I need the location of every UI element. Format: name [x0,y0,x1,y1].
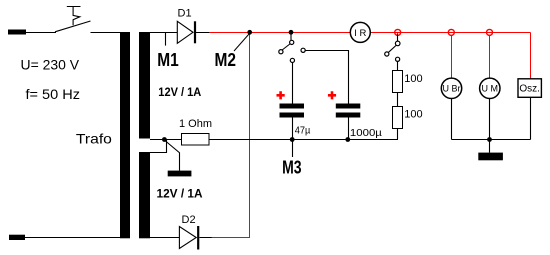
wire to C1 47µ [292,60,294,103]
node M1 tick [165,33,167,46]
junction C1 node [290,137,295,142]
transformer secondary lower winding bar [139,152,150,238]
svg-text:D2: D2 [182,214,196,226]
wire [530,97,532,139]
resistor R1 100 [393,71,403,93]
junction C2 node [345,137,350,142]
wire [26,32,56,34]
terminal bottom-left [9,235,25,240]
wire [397,129,399,140]
svg-text:M2: M2 [215,50,237,70]
node M3 tick [292,142,294,158]
svg-text:M3: M3 [282,157,302,177]
wire red vertical from M2 node [249,33,251,238]
wire [451,99,453,140]
ammeter IR [350,22,370,42]
terminal top-left [8,30,26,35]
switch S2 stub [290,33,292,41]
svg-text:D1: D1 [178,8,192,20]
switch S3 blade [389,45,397,52]
voltmeter U Br [441,78,461,98]
svg-text:12V / 1A: 12V / 1A [157,187,203,201]
svg-text:M1: M1 [157,50,179,70]
svg-text:U M: U M [482,84,499,94]
wire [200,237,212,239]
node ring 3 [487,29,493,35]
svg-text:12V / 1A: 12V / 1A [158,85,201,99]
wire red corner down to Osz [530,33,532,79]
polarity + C2 [328,91,336,99]
node ring 1 [395,29,401,35]
svg-text:100: 100 [404,73,422,85]
diode D1 [177,21,195,43]
wire red stub [489,35,491,78]
resistor R2 100 [393,107,403,129]
svg-text:1000µ: 1000µ [350,127,382,139]
svg-text:f= 50 Hz: f= 50 Hz [26,86,81,102]
polarity + C1 [277,91,285,99]
transformer primary winding bar [120,32,130,238]
wire [292,118,294,140]
svg-text:U Br: U Br [443,84,461,94]
capacitor C2 1000µ plates [336,104,361,118]
switch S3 contact circles [385,41,400,61]
wire [91,32,121,34]
wire [489,140,491,153]
junction meter ground node [487,137,492,142]
wire meter ground bus [452,139,531,141]
diode D2 [179,226,198,250]
wire main bottom bus [150,129,398,140]
wire secondary bottom to D2 [150,237,179,239]
junction node at switch S2 [289,30,294,35]
wire secondary top [150,32,178,34]
switch S2 blade [282,44,291,51]
svg-text:1 Ohm: 1 Ohm [179,118,212,130]
label M2 pointer line [234,34,249,51]
svg-text:Trafo: Trafo [76,131,112,147]
wire to C2 1000µ [305,51,348,104]
capacitor C1 47µ plates [280,104,305,118]
svg-text:47µ: 47µ [295,125,311,136]
wire red top bus [209,32,530,34]
transformer secondary upper winding bar [139,32,150,139]
wire red stub [451,35,453,78]
wire [25,237,120,239]
wire [397,61,399,70]
switch S1 actuator [67,6,81,25]
svg-text:100: 100 [404,109,422,121]
wire center tap from lower winding [150,140,167,153]
resistor R 1 Ohm [182,134,210,146]
svg-text:Osz.: Osz. [519,84,540,95]
wire [397,93,399,107]
switch S1 blade [55,21,91,32]
ground bar right [478,153,503,161]
oscilloscope Osz [518,79,541,98]
svg-text:I R: I R [354,28,366,39]
junction node M2 [247,30,252,35]
wire [196,32,209,34]
svg-text:U= 230 V: U= 230 V [21,56,80,72]
node ring 2 [448,29,454,35]
ground bar left [168,171,192,177]
switch S3 stub [397,33,399,41]
wire red from D2 [212,237,250,239]
wire [489,99,491,140]
switch S2 contact circles [279,40,305,62]
voltmeter U M [480,78,500,98]
wire to ground [166,141,180,171]
junction center tap [162,137,167,142]
wire [348,118,350,140]
